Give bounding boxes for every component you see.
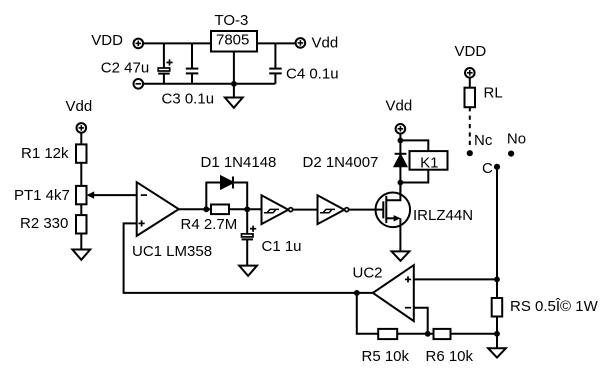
wire gate1 to gate2 bbox=[293, 209, 318, 211]
wire UC2 out down to R5 bbox=[357, 293, 378, 334]
wire R4 to gate 1 bbox=[229, 208, 262, 210]
wire PT1 wiper to UC1 inverting input bbox=[94, 194, 137, 196]
svg-text:RS 0.5Î© 1W: RS 0.5Î© 1W bbox=[510, 298, 599, 315]
svg-text:VDD: VDD bbox=[91, 32, 123, 49]
svg-text:C1 1u: C1 1u bbox=[262, 238, 302, 255]
svg-text:K1: K1 bbox=[420, 154, 438, 171]
svg-text:C: C bbox=[482, 160, 493, 177]
diode D1 1N4148 bbox=[221, 177, 233, 189]
svg-text:C2 47u: C2 47u bbox=[101, 60, 149, 77]
svg-text:C3 0.1u: C3 0.1u bbox=[162, 90, 215, 107]
diode D2 1N4007 bbox=[395, 154, 407, 193]
junction UC2 out / R5 branch bbox=[354, 290, 360, 296]
resistor RL (load) bbox=[465, 88, 476, 108]
svg-text:C4 0.1u: C4 0.1u bbox=[286, 66, 339, 83]
resistor RS 0.5 ohm bbox=[492, 279, 503, 348]
wire VDD to 7805 input bbox=[143, 42, 211, 44]
wire R5 to R6 bbox=[397, 333, 433, 335]
ground (below MOSFET source) bbox=[392, 251, 410, 260]
svg-text:No: No bbox=[507, 131, 526, 148]
resistor R6 10k bbox=[434, 329, 451, 339]
node Vdd terminal (above K1) bbox=[396, 124, 406, 134]
svg-text:R5 10k: R5 10k bbox=[362, 348, 410, 365]
svg-text:TO-3: TO-3 bbox=[215, 12, 249, 29]
svg-text:D2 1N4007: D2 1N4007 bbox=[303, 154, 379, 171]
capacitor C4 (0.1u) bbox=[269, 43, 282, 83]
junction R6 / RS / ground bbox=[494, 331, 500, 337]
node minus terminal (-) bbox=[134, 79, 144, 89]
wire RL to Nc contact (dashed) bbox=[469, 107, 471, 149]
ground (below C1) bbox=[239, 266, 257, 276]
wire UC1 output to R4 bbox=[179, 208, 211, 210]
transistor Q1 IRLZ44N bbox=[376, 183, 411, 252]
wire 7805 ground pin bbox=[233, 52, 235, 98]
wire PT1 to R2 bbox=[80, 204, 82, 215]
gate U2B schmitt buffer 2 bbox=[318, 195, 349, 224]
op-amp UC2 bbox=[373, 265, 414, 321]
svg-text:PT1 4k7: PT1 4k7 bbox=[14, 187, 70, 204]
wire Vdd terminal to D2/K1 bbox=[399, 134, 401, 154]
svg-text:VDD: VDD bbox=[455, 43, 487, 60]
svg-text:Vdd: Vdd bbox=[312, 35, 339, 52]
wire R1 to PT1 bbox=[80, 163, 82, 186]
wire K1 branch bottom bbox=[400, 170, 428, 183]
capacitor C1 1u bbox=[242, 209, 257, 265]
potentiometer PT1 4k7 bbox=[76, 186, 94, 204]
svg-text:R4 2.7M: R4 2.7M bbox=[181, 216, 238, 233]
wire R2 to ground bbox=[80, 234, 82, 250]
svg-text:Vdd: Vdd bbox=[386, 98, 413, 115]
regulator U 7805 bbox=[211, 31, 257, 52]
capacitor C2 (electrolytic 47u) bbox=[158, 43, 172, 83]
node No contact bbox=[508, 151, 514, 157]
relay coil K1 bbox=[410, 151, 448, 171]
node VDD input terminal (+) bbox=[134, 39, 144, 49]
wire Vdd to R1 bbox=[80, 133, 82, 145]
node VDD terminal (above RL) bbox=[465, 68, 475, 78]
resistor R5 10k bbox=[378, 329, 397, 339]
wire VDD to RL bbox=[469, 78, 471, 88]
svg-text:Nc: Nc bbox=[474, 132, 493, 149]
wire 7805 output to Vdd terminal bbox=[257, 42, 296, 44]
wire UC2 + input to RS top bbox=[414, 278, 497, 280]
junction Vdd / K1 top bbox=[398, 138, 404, 144]
wire UC2 output (feedback to UC1) bbox=[124, 223, 373, 293]
svg-text:UC2: UC2 bbox=[353, 265, 383, 282]
node Nc contact bbox=[467, 150, 473, 156]
ground (below 7805) bbox=[225, 98, 243, 108]
junction C wire / +input / RS bbox=[494, 277, 500, 283]
gate U2A schmitt buffer 1 bbox=[262, 195, 293, 224]
junction R5 / R6 / -input bbox=[425, 331, 431, 337]
junction UC1 out / D1 bbox=[203, 206, 209, 212]
svg-text:Vdd: Vdd bbox=[66, 98, 93, 115]
wire UC2 - input to R5/R6 node bbox=[414, 308, 428, 334]
capacitor C3 (0.1u) bbox=[186, 43, 199, 83]
ground (below RS) bbox=[488, 348, 506, 357]
resistor R1 12k bbox=[76, 144, 87, 162]
ground (below R2) bbox=[72, 250, 90, 260]
junction R4 / D1 / C1 / gate bbox=[244, 206, 250, 212]
wire ground rail (bottom of input section) bbox=[143, 83, 275, 85]
resistor R2 330 bbox=[76, 215, 87, 233]
svg-text:R1 12k: R1 12k bbox=[21, 145, 69, 162]
svg-text:7805: 7805 bbox=[216, 32, 249, 49]
svg-text:R2 330: R2 330 bbox=[20, 215, 68, 232]
svg-text:UC1 LM358: UC1 LM358 bbox=[132, 243, 212, 260]
wire C contact down to RS bbox=[496, 167, 498, 280]
svg-text:D1 1N4148: D1 1N4148 bbox=[201, 154, 277, 171]
op-amp UC1 LM358 bbox=[137, 182, 179, 236]
node Vdd output terminal (+) bbox=[296, 38, 306, 48]
wire D1 left branch bbox=[206, 183, 221, 210]
wire D1 right branch bbox=[233, 183, 247, 210]
wire gate2 to MOSFET gate bbox=[349, 209, 383, 211]
svg-text:R6 10k: R6 10k bbox=[426, 348, 474, 365]
wire R6 to RS bottom bbox=[451, 333, 498, 335]
node C contact (common) bbox=[494, 164, 500, 170]
junction D2 anode / K1 bottom / drain bbox=[398, 180, 404, 186]
resistor R4 2.7M bbox=[211, 205, 229, 215]
junction 7805 gnd / rail bbox=[231, 81, 237, 87]
svg-text:IRLZ44N: IRLZ44N bbox=[413, 207, 473, 224]
svg-text:RL: RL bbox=[484, 85, 503, 102]
node Vdd terminal (left, above R1) bbox=[77, 123, 87, 133]
wire K1 branch top bbox=[400, 140, 428, 151]
